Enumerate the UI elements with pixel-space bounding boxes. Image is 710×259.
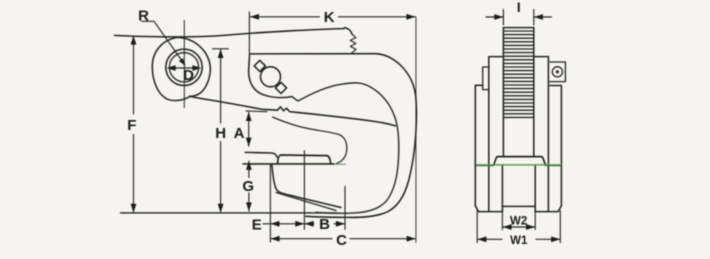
green scan line, left figure	[246, 163, 347, 165]
W1 extension lines	[477, 211, 560, 243]
dimension C line	[271, 238, 416, 240]
svg-text:D: D	[183, 67, 194, 84]
dimension graphics, left figure	[121, 12, 416, 243]
lower jaw left edge and bottom slope	[272, 165, 341, 208]
dimension K line	[250, 16, 416, 18]
shared right extension line (K/C)	[415, 17, 417, 243]
arrowhead K left	[250, 14, 259, 20]
arrowhead C left	[271, 236, 280, 242]
arrowhead W2 left	[503, 224, 512, 230]
wire: top tangent line over eye (F extension + arm top edge)	[115, 29, 345, 37]
extension line at jaw tip (E left / C left)	[269, 165, 271, 242]
right side plate	[534, 57, 549, 212]
jaw pocket curve	[273, 117, 347, 164]
extension line at pad centre (screw axis)	[303, 151, 305, 230]
K left extension line	[248, 12, 250, 54]
arrowhead E right	[295, 221, 304, 227]
C-frame top edge	[250, 53, 376, 55]
arrowhead W1 right	[551, 236, 560, 242]
dimension I line	[486, 16, 552, 18]
shackle hole outer circle	[166, 49, 202, 85]
threaded rod left edge	[502, 28, 504, 157]
baseline (bottom reference line)	[121, 212, 339, 214]
green scan line, right figure	[476, 164, 562, 166]
threaded rod right edge	[533, 28, 535, 157]
svg-text:W2: W2	[510, 215, 527, 227]
W2 extension lines	[502, 213, 535, 230]
arrowhead F bottom	[131, 204, 137, 213]
svg-text:H: H	[215, 125, 226, 142]
leader line R	[142, 21, 184, 62]
W1 dimension line	[478, 238, 560, 240]
arrowhead W1 left	[477, 236, 486, 242]
svg-text:K: K	[324, 9, 335, 26]
dimension F vertical line	[133, 36, 135, 212]
lower jaw top line	[243, 163, 334, 165]
arrowhead F top	[131, 36, 137, 45]
rod top edge	[503, 27, 533, 29]
svg-text:I: I	[517, 0, 521, 15]
svg-text:F: F	[127, 117, 136, 134]
svg-text:A: A	[234, 125, 245, 142]
arrowhead B left	[305, 221, 314, 227]
rod threads	[503, 31, 533, 117]
C-frame outer right edge	[306, 54, 416, 218]
anvil pad (side view)	[278, 155, 331, 164]
svg-text:B: B	[319, 216, 330, 233]
svg-text:W1: W1	[510, 235, 528, 247]
arrowhead I left	[494, 14, 503, 20]
screw tongue above pad	[245, 152, 277, 157]
arrowhead H bottom	[218, 204, 224, 213]
cam tab lower-right	[275, 82, 286, 93]
shackle hole inner circle	[169, 53, 198, 82]
dimension H extension tick	[213, 48, 229, 50]
housing bottom with recess	[479, 206, 558, 211]
dimension G vertical line	[248, 161, 250, 211]
bolt circle	[552, 67, 562, 77]
cam pivot housing outline	[249, 54, 292, 97]
E-B dimension line	[263, 223, 345, 225]
arrowheads	[131, 14, 560, 242]
arrowhead E left	[271, 221, 280, 227]
break (jagged) line on upper arm	[350, 34, 356, 53]
extension line B right	[344, 187, 346, 230]
arrowhead C right	[407, 236, 416, 242]
arrowhead G bottom	[246, 202, 252, 211]
svg-text:G: G	[242, 178, 254, 195]
lower jaw bottom second line	[276, 193, 336, 211]
cam tab upper-left	[254, 60, 265, 71]
arm bottom edge with grip tooth, extended to throat	[190, 96, 396, 126]
arrowhead D right	[192, 65, 201, 71]
W2 dimension line	[503, 226, 535, 228]
arrowhead H top	[218, 49, 224, 58]
housing column inner-left	[501, 165, 503, 211]
wire: arm top edge curving into break	[345, 28, 353, 35]
small spacer block left	[483, 67, 489, 90]
housing top edge right	[545, 164, 561, 166]
dimension A extension tick	[246, 110, 267, 113]
arrowhead B right	[336, 221, 345, 227]
housing column inner-right	[534, 165, 536, 211]
cam circle	[261, 67, 281, 87]
bolt centre dot	[556, 70, 559, 73]
anvil pad (front view)	[494, 157, 546, 165]
arrowhead G top	[246, 161, 252, 170]
dimension A vertical line	[248, 113, 250, 147]
outer right plate	[550, 86, 562, 212]
housing top edge left	[475, 164, 494, 166]
arrowhead A bottom	[246, 138, 252, 147]
arrowhead A top	[246, 112, 252, 121]
front view (right figure)	[475, 28, 565, 212]
C-frame inner edge sweep (throat)	[292, 83, 399, 213]
left side plate	[489, 57, 504, 212]
bolt plate right	[550, 62, 566, 82]
I tick right	[533, 10, 535, 26]
svg-text:C: C	[336, 232, 347, 249]
dimension D arrow lines	[171, 67, 196, 69]
eye ring outer profile	[152, 37, 210, 100]
centerline through eye	[183, 21, 185, 108]
arrowhead W2 right	[526, 224, 535, 230]
svg-text:E: E	[252, 216, 262, 233]
arrowhead I right	[534, 14, 543, 20]
outer left plate	[475, 85, 482, 211]
svg-text:R: R	[138, 7, 149, 24]
I tick left	[502, 10, 504, 26]
dimension graphics, right figure	[477, 10, 560, 243]
arrowhead D left	[167, 65, 176, 71]
dimension H vertical line	[220, 49, 222, 212]
arrowhead K right	[406, 14, 415, 20]
arrowhead R leader	[179, 58, 186, 66]
